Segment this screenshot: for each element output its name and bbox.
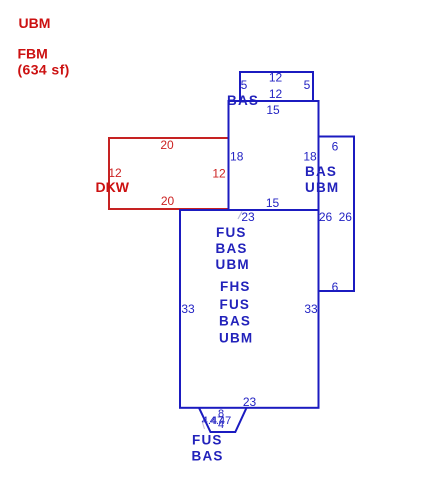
svg-text:18: 18 xyxy=(230,150,244,164)
area right rectangle BAS/UBM xyxy=(319,137,355,292)
svg-text:12: 12 xyxy=(269,87,283,101)
area DKW rectangle (red) xyxy=(109,138,229,209)
svg-text:33: 33 xyxy=(181,302,195,316)
svg-text:26: 26 xyxy=(339,210,353,224)
svg-text:BAS: BAS xyxy=(192,449,224,464)
svg-text:4: 4 xyxy=(218,419,224,431)
svg-text:23: 23 xyxy=(241,210,255,224)
svg-text:UBM: UBM xyxy=(219,331,253,346)
svg-text:5: 5 xyxy=(241,78,248,92)
svg-text:UBM: UBM xyxy=(216,257,250,272)
svg-text:12: 12 xyxy=(108,166,122,180)
svg-text:20: 20 xyxy=(160,138,174,152)
svg-text:20: 20 xyxy=(161,194,175,208)
svg-text:BAS: BAS xyxy=(219,314,251,329)
svg-text:BAS: BAS xyxy=(216,241,248,256)
area main rectangle xyxy=(180,210,319,408)
area bay trapezoid xyxy=(199,408,247,432)
svg-text:BAS: BAS xyxy=(305,164,337,179)
svg-text:FBM: FBM xyxy=(18,46,48,62)
svg-text:15: 15 xyxy=(266,196,280,210)
svg-text:(634 sf): (634 sf) xyxy=(18,62,70,78)
area small top rectangle (porch) xyxy=(240,72,313,101)
svg-text:FUS: FUS xyxy=(220,297,251,312)
svg-text:FUS: FUS xyxy=(192,433,223,448)
svg-text:5: 5 xyxy=(304,78,311,92)
svg-text:23: 23 xyxy=(243,395,257,409)
area middle rectangle xyxy=(229,101,319,210)
svg-text:12: 12 xyxy=(269,71,283,85)
svg-text:18: 18 xyxy=(303,150,317,164)
svg-text:15: 15 xyxy=(266,103,280,117)
svg-text:UBM: UBM xyxy=(19,15,51,31)
tick mark on bay left slant xyxy=(202,421,205,429)
svg-text:FHS: FHS xyxy=(220,279,251,294)
corner tick mark near 23 xyxy=(238,212,242,220)
svg-text:UBM: UBM xyxy=(305,180,339,195)
svg-text:FUS: FUS xyxy=(216,225,247,240)
svg-text:12: 12 xyxy=(212,167,226,181)
svg-text:33: 33 xyxy=(304,302,318,316)
svg-text:DKW: DKW xyxy=(96,179,130,195)
svg-text:6: 6 xyxy=(332,280,339,294)
svg-text:26: 26 xyxy=(319,210,333,224)
svg-text:6: 6 xyxy=(332,140,339,154)
